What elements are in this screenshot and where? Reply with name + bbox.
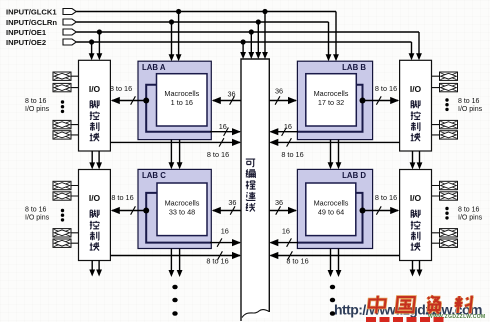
svg-text:INPUT/OE1: INPUT/OE1 xyxy=(6,28,47,37)
wire 8to16 IO left to PIA xyxy=(110,138,241,159)
svg-text:36: 36 xyxy=(275,87,283,96)
svg-text:36: 36 xyxy=(228,198,236,207)
svg-text:I/O pins: I/O pins xyxy=(25,215,50,222)
text I/O 脚控制块 bottom-right block xyxy=(410,193,422,250)
wire IO TL to IO BL drops xyxy=(89,151,102,169)
svg-text:LAB A: LAB A xyxy=(142,63,166,72)
svg-text:Macrocells: Macrocells xyxy=(314,199,349,208)
wire 8to16 IO right bottom to PIA xyxy=(269,251,399,265)
text I/O 脚控制块 bottom-left block xyxy=(89,193,101,250)
svg-text:INPUT/GCLRn: INPUT/GCLRn xyxy=(6,18,57,27)
svg-text:17 to 32: 17 to 32 xyxy=(318,98,344,107)
label 8 to 16 I/O pins top-left xyxy=(25,98,50,113)
svg-text:I/O pins: I/O pins xyxy=(458,106,483,113)
svg-text:33 to 48: 33 to 48 xyxy=(169,208,195,217)
wire OE2 drop to PIA xyxy=(242,42,244,53)
wire GCLRn drop to LAB A xyxy=(171,22,173,55)
svg-text:16: 16 xyxy=(282,227,290,236)
wire LAB D bottom drops xyxy=(328,249,342,278)
wire OE1 drop to PIA xyxy=(250,32,252,53)
svg-text:I/O: I/O xyxy=(410,84,422,94)
junction GCLRn to LAB A xyxy=(169,19,174,24)
I/O control block bottom-left xyxy=(79,170,111,261)
svg-text:36: 36 xyxy=(227,90,235,99)
text 可编程连线 PIA bar xyxy=(246,159,256,212)
watermark red bottom strip xyxy=(366,317,444,322)
wire 16 LAB C to PIA xyxy=(210,227,241,247)
pin INPUT/OE2 xyxy=(63,39,76,45)
svg-text:8 to 16: 8 to 16 xyxy=(458,207,480,214)
wire OE2 drop to right IO xyxy=(411,42,413,54)
wire GCLRn drop to LAB B xyxy=(328,22,330,55)
label 8 to 16 I/O pins top-right xyxy=(458,98,483,113)
wire IO BL bottom drops xyxy=(89,261,102,277)
wire GCLRn horizontal xyxy=(76,21,328,23)
wire GLCK1 drop to LAB A xyxy=(178,12,180,56)
io buffers top-right xyxy=(432,72,458,139)
wire 8to16 IO right to PIA xyxy=(269,138,399,159)
wire OE1 drop to right IO xyxy=(418,32,420,54)
svg-text:8 to 16: 8 to 16 xyxy=(110,84,132,93)
svg-text:16: 16 xyxy=(219,122,227,131)
text I/O 脚控制块 top-left block xyxy=(89,84,101,141)
svg-text:I/O: I/O xyxy=(89,84,101,94)
wire 16 LAB D to PIA xyxy=(269,227,298,247)
label 8 to 16 I/O pins bottom-left xyxy=(25,207,50,222)
label 8 to 16 I/O pins bottom-right xyxy=(458,207,483,222)
wire 8to16 LAB A to IO left with junction xyxy=(110,84,149,105)
ellipsis below LAB D xyxy=(330,285,335,316)
wire 36 PIA to LAB B xyxy=(269,87,297,105)
wire LAB A to LAB C drops xyxy=(169,140,183,170)
wire 36 PIA to LAB C xyxy=(212,198,241,215)
I/O control block top-left xyxy=(79,60,111,151)
svg-text:I/O: I/O xyxy=(410,193,422,203)
wire 8to16 LAB C to IO left with junction xyxy=(111,193,149,215)
io buffers bottom-right xyxy=(432,181,458,247)
wire LAB B to LAB D drops xyxy=(328,140,342,170)
wire 16 LAB B to PIA xyxy=(269,122,298,136)
I/O control block bottom-right xyxy=(400,170,432,261)
svg-text:8 to 16: 8 to 16 xyxy=(206,257,228,266)
wire 36 PIA to LAB D xyxy=(269,198,297,215)
wire LAB C bottom drops xyxy=(169,249,183,278)
svg-text:8 to 16: 8 to 16 xyxy=(281,150,303,159)
wire GLCK1 horizontal xyxy=(76,11,336,13)
pin INPUT/OE1 xyxy=(63,29,76,35)
junction OE2 to left IO xyxy=(89,39,94,44)
LAB C block xyxy=(138,169,211,248)
wire IO TR to IO BR drops xyxy=(410,151,423,169)
svg-text:LAB B: LAB B xyxy=(342,63,366,72)
wire 8to16 LAB D to IO right with junction xyxy=(360,193,400,215)
LAB B block xyxy=(297,61,372,139)
wire 8to16 LAB B to IO right with junction xyxy=(360,84,400,105)
svg-text:I/O pins: I/O pins xyxy=(458,215,483,222)
svg-text:16: 16 xyxy=(221,227,229,236)
junction GLCK1 to LAB A xyxy=(176,9,181,14)
svg-text:49 to 64: 49 to 64 xyxy=(318,208,344,217)
svg-text:LAB C: LAB C xyxy=(142,171,166,180)
wire OE1 horizontal xyxy=(76,31,419,33)
junction GCLRn to PIA xyxy=(256,19,261,24)
svg-text:I/O pins: I/O pins xyxy=(25,106,50,113)
watermark red characters 中国资料 xyxy=(368,296,472,314)
wire GLCK1 drop to PIA xyxy=(264,12,266,54)
svg-text:16: 16 xyxy=(284,122,292,131)
wire GCLRn drop to PIA xyxy=(257,22,259,53)
PIA bar 可编程连线 xyxy=(241,59,269,321)
svg-text:8 to 16: 8 to 16 xyxy=(207,150,229,159)
wire 16 LAB A to PIA xyxy=(210,122,241,136)
wire IO BR bottom drops xyxy=(410,261,423,277)
text I/O 脚控制块 top-right block xyxy=(410,84,422,141)
junction OE2 to PIA xyxy=(241,39,246,44)
svg-text:I/O: I/O xyxy=(89,193,101,203)
I/O control block top-right xyxy=(400,60,432,151)
svg-text:1 to 16: 1 to 16 xyxy=(171,98,193,107)
pin INPUT/GCLRn xyxy=(63,19,76,25)
io buffers top-left xyxy=(53,72,79,139)
io buffers bottom-left xyxy=(53,181,79,247)
wire OE2 drop to left IO xyxy=(91,42,93,54)
svg-text:8 to 16: 8 to 16 xyxy=(25,207,47,214)
junction OE1 to PIA xyxy=(249,29,254,34)
svg-text:Macrocells: Macrocells xyxy=(164,89,199,98)
junction OE1 to left IO xyxy=(97,29,102,34)
svg-text:8 to 16: 8 to 16 xyxy=(286,257,308,266)
junction GLCK1 to PIA xyxy=(262,9,267,14)
wire OE1 drop to left IO xyxy=(98,32,100,54)
wire GLCK1 drop to LAB B xyxy=(335,12,337,56)
wire 8to16 IO left bottom to PIA xyxy=(110,251,241,265)
svg-text:36: 36 xyxy=(275,198,283,207)
wire OE2 horizontal xyxy=(76,41,411,43)
svg-text:8 to 16: 8 to 16 xyxy=(111,193,133,202)
LAB A block xyxy=(138,61,211,139)
svg-text:8 to 16: 8 to 16 xyxy=(458,98,480,105)
svg-text:INPUT/GLCK1: INPUT/GLCK1 xyxy=(6,8,57,17)
ellipsis below LAB C xyxy=(172,285,177,316)
svg-text:INPUT/OE2: INPUT/OE2 xyxy=(6,38,46,47)
svg-text:8 to 16: 8 to 16 xyxy=(375,84,397,93)
svg-text:8 to 16: 8 to 16 xyxy=(25,98,47,105)
LAB D block xyxy=(297,169,372,248)
wire 36 PIA to LAB A xyxy=(212,90,241,105)
svg-text:Macrocells: Macrocells xyxy=(165,199,200,208)
svg-text:Macrocells: Macrocells xyxy=(314,89,349,98)
svg-text:8 to 16: 8 to 16 xyxy=(375,193,397,202)
svg-text:LAB D: LAB D xyxy=(342,171,366,180)
pin INPUT/GLCK1 xyxy=(63,9,76,15)
